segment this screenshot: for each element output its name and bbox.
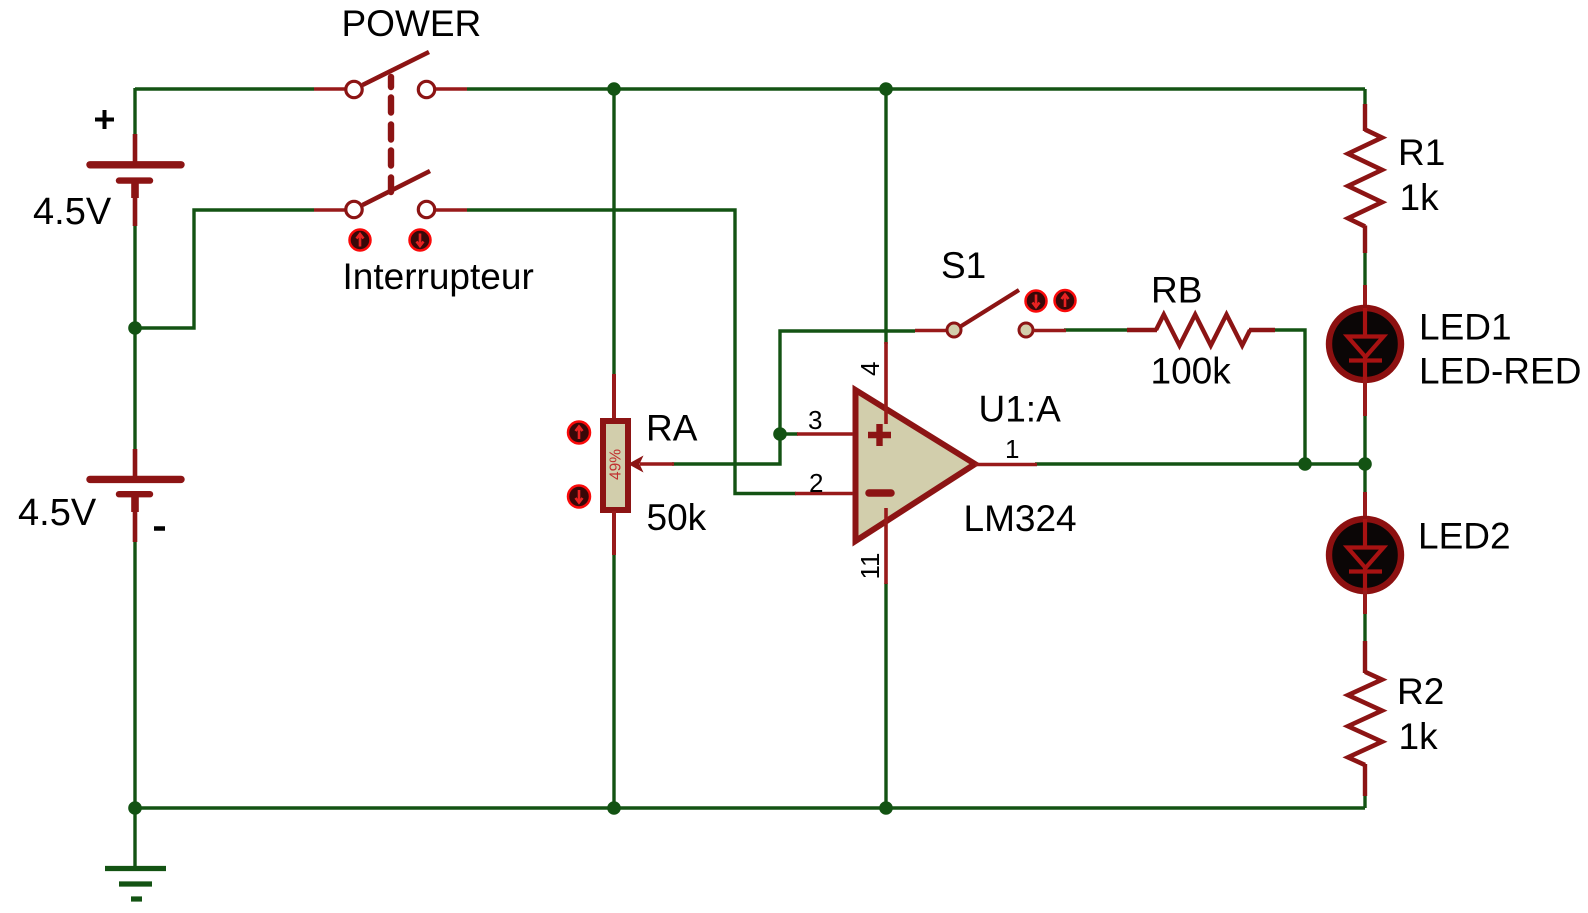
op-amp U1 pin 3: [797, 405, 853, 435]
switch POWER dashed link: [388, 77, 394, 192]
svg-text:1k: 1k: [1399, 716, 1439, 757]
svg-text:LM324: LM324: [964, 498, 1077, 539]
label R2: [1397, 671, 1444, 712]
label LED-RED: [1419, 351, 1581, 392]
resistor R1 1k: [1348, 104, 1382, 253]
label R1: [1398, 132, 1445, 173]
svg-text:LED-RED: LED-RED: [1419, 351, 1581, 392]
op-amp U1 pin 1 output: [975, 434, 1037, 465]
svg-text:11: 11: [855, 553, 885, 580]
potentiometer RA 49% value text: [608, 449, 625, 480]
label U1:A: [979, 389, 1062, 430]
label LED2: [1418, 516, 1511, 557]
label RB: [1151, 270, 1202, 311]
node dot LED junction: [1358, 457, 1372, 471]
wire pot wiper to node A: [672, 434, 780, 464]
node dot top rail x=614: [607, 82, 621, 96]
resistor R2 1k: [1348, 641, 1382, 796]
label RA: [646, 408, 698, 449]
node dot top rail x=886: [879, 82, 893, 96]
potentiometer RA body: [603, 374, 628, 555]
switch S1 actuator button down: [1026, 291, 1047, 312]
wire bottom rail: [135, 806, 1365, 809]
svg-text:RB: RB: [1151, 270, 1202, 311]
wire lower switch pole to op-amp pin 2: [467, 210, 796, 494]
node dot bottom rail x=886: [879, 801, 893, 815]
svg-text:1k: 1k: [1400, 177, 1440, 218]
switch S1 actuator button up: [1055, 290, 1076, 311]
svg-text:4.5V: 4.5V: [18, 492, 97, 534]
svg-text:R2: R2: [1397, 671, 1444, 712]
switch POWER actuator button down: [410, 230, 431, 251]
op-amp U1 pin 4 power: [855, 342, 886, 424]
switch POWER actuator button up: [350, 230, 371, 251]
svg-text:Interrupteur: Interrupteur: [343, 256, 534, 297]
svg-text:4: 4: [855, 362, 885, 376]
wire node A up to S1: [780, 331, 915, 434]
label S1: [941, 245, 986, 286]
svg-text:S1: S1: [941, 245, 986, 286]
svg-text:4.5V: 4.5V: [33, 191, 112, 233]
potentiometer RA actuator button up: [568, 422, 590, 444]
node dot bottom rail ground: [128, 801, 142, 815]
node A dot pin3 junction: [773, 427, 787, 441]
label Interrupteur: [343, 256, 534, 297]
LED1: [1329, 285, 1401, 416]
wire node A to op-amp pin 3: [780, 432, 798, 435]
label LED1: [1419, 307, 1512, 348]
svg-text:2: 2: [809, 468, 823, 498]
op-amp U1 pin 2: [795, 468, 853, 498]
wire middle vertical through pot x=614: [612, 89, 615, 809]
label 50k: [647, 497, 707, 538]
battery BT2 minus sign: [154, 526, 165, 531]
node dot battery junction: [128, 321, 142, 335]
resistor RB 100k: [1127, 315, 1275, 346]
svg-text:1: 1: [1005, 434, 1019, 464]
node dot bottom rail x=614: [607, 801, 621, 815]
potentiometer RA actuator button down: [568, 486, 590, 508]
svg-text:3: 3: [808, 405, 822, 435]
label POWER: [342, 3, 482, 44]
svg-text:LED1: LED1: [1419, 307, 1512, 348]
svg-text:U1:A: U1:A: [979, 389, 1062, 430]
wire top rail right segment: [467, 87, 1365, 90]
wire left vertical battery column: [133, 88, 136, 809]
battery BT1 4.5V: [90, 134, 181, 226]
wire from battery junction to lower switch pole: [135, 210, 314, 328]
label R1 value 1k: [1400, 177, 1440, 218]
svg-text:LED2: LED2: [1418, 516, 1511, 557]
wire vertical through op-amp supply x=886: [884, 89, 887, 809]
battery BT1 value label 4.5V: [33, 191, 112, 233]
battery BT2 4.5V: [90, 449, 181, 542]
label 100k: [1151, 351, 1232, 392]
battery BT2 value label 4.5V: [18, 492, 97, 534]
wire right vertical LED chain x=1365: [1363, 89, 1366, 808]
wire top rail left segment: [135, 87, 314, 90]
ground: [105, 808, 166, 899]
op-amp U1 pin 11 power: [855, 508, 886, 584]
wire op-amp output to LED junction: [1035, 462, 1365, 465]
wire RB to output node: [1274, 330, 1305, 464]
svg-text:RA: RA: [646, 408, 698, 449]
switch POWER pole 2: [314, 171, 467, 218]
label R2 value 1k: [1399, 716, 1439, 757]
battery BT1 plus sign: [95, 110, 114, 129]
switch POWER pole 1: [314, 52, 467, 98]
node dot RB output junction: [1298, 457, 1312, 471]
svg-text:100k: 100k: [1151, 351, 1232, 392]
svg-text:POWER: POWER: [342, 3, 482, 44]
potentiometer RA wiper arrow: [628, 456, 674, 473]
switch S1: [915, 290, 1066, 337]
op-amp U1 triangle: [856, 390, 976, 541]
svg-text:49%: 49%: [608, 449, 625, 480]
svg-text:R1: R1: [1398, 132, 1445, 173]
svg-text:50k: 50k: [647, 497, 707, 538]
wire S1 to RB: [1064, 328, 1128, 331]
LED2: [1329, 492, 1401, 614]
label LM324: [964, 498, 1077, 539]
